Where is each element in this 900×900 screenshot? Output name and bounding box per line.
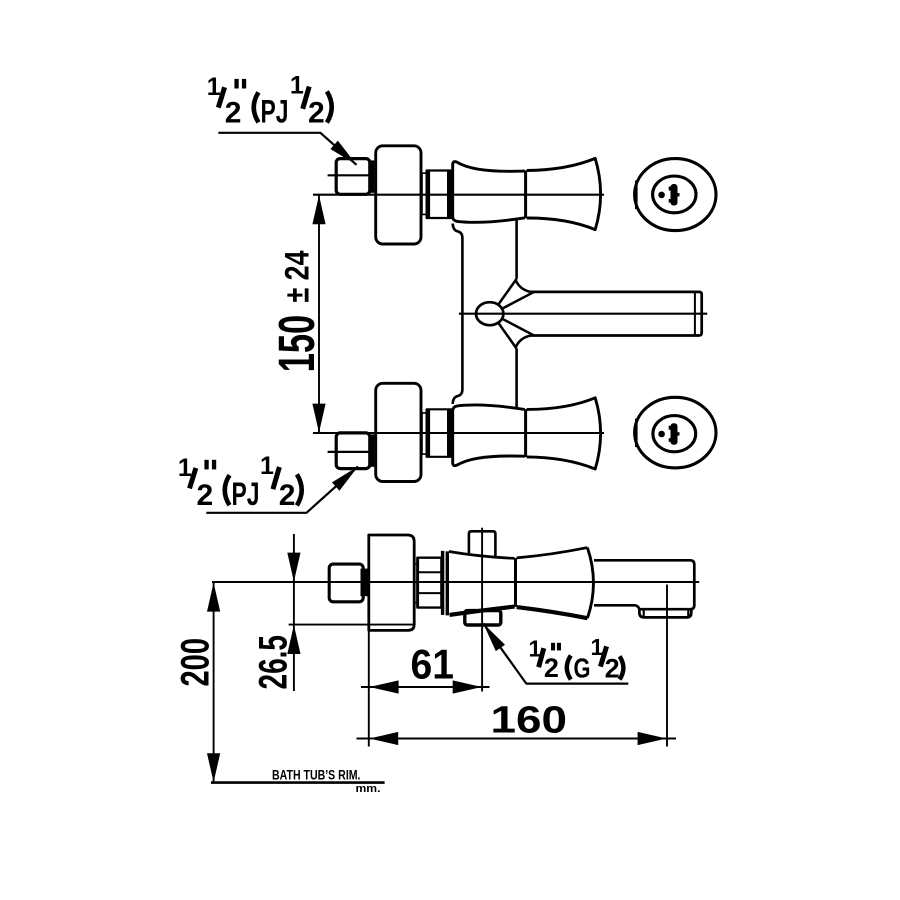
svg-text:2: 2 xyxy=(308,96,325,129)
svg-text:2: 2 xyxy=(197,479,214,512)
svg-text:mm.: mm. xyxy=(356,783,381,795)
svg-text:61: 61 xyxy=(411,641,455,688)
svg-text:1: 1 xyxy=(178,454,192,482)
svg-text:1: 1 xyxy=(260,452,274,480)
svg-text:± 24: ± 24 xyxy=(279,250,317,302)
svg-text:160: 160 xyxy=(491,700,568,742)
svg-text:2: 2 xyxy=(279,479,296,512)
svg-text:PJ: PJ xyxy=(232,476,260,512)
svg-text:2: 2 xyxy=(225,96,242,129)
svg-text:150: 150 xyxy=(268,315,325,373)
svg-text:200: 200 xyxy=(174,638,218,687)
svg-text:G: G xyxy=(574,653,591,684)
svg-text:2: 2 xyxy=(605,653,620,683)
svg-text:BATH TUB’S RIM.: BATH TUB’S RIM. xyxy=(272,768,361,783)
svg-text:PJ: PJ xyxy=(261,93,289,129)
svg-text:26.5: 26.5 xyxy=(252,635,296,690)
svg-text:1: 1 xyxy=(290,71,304,99)
svg-text:2: 2 xyxy=(544,653,559,683)
svg-text:1: 1 xyxy=(207,73,221,101)
